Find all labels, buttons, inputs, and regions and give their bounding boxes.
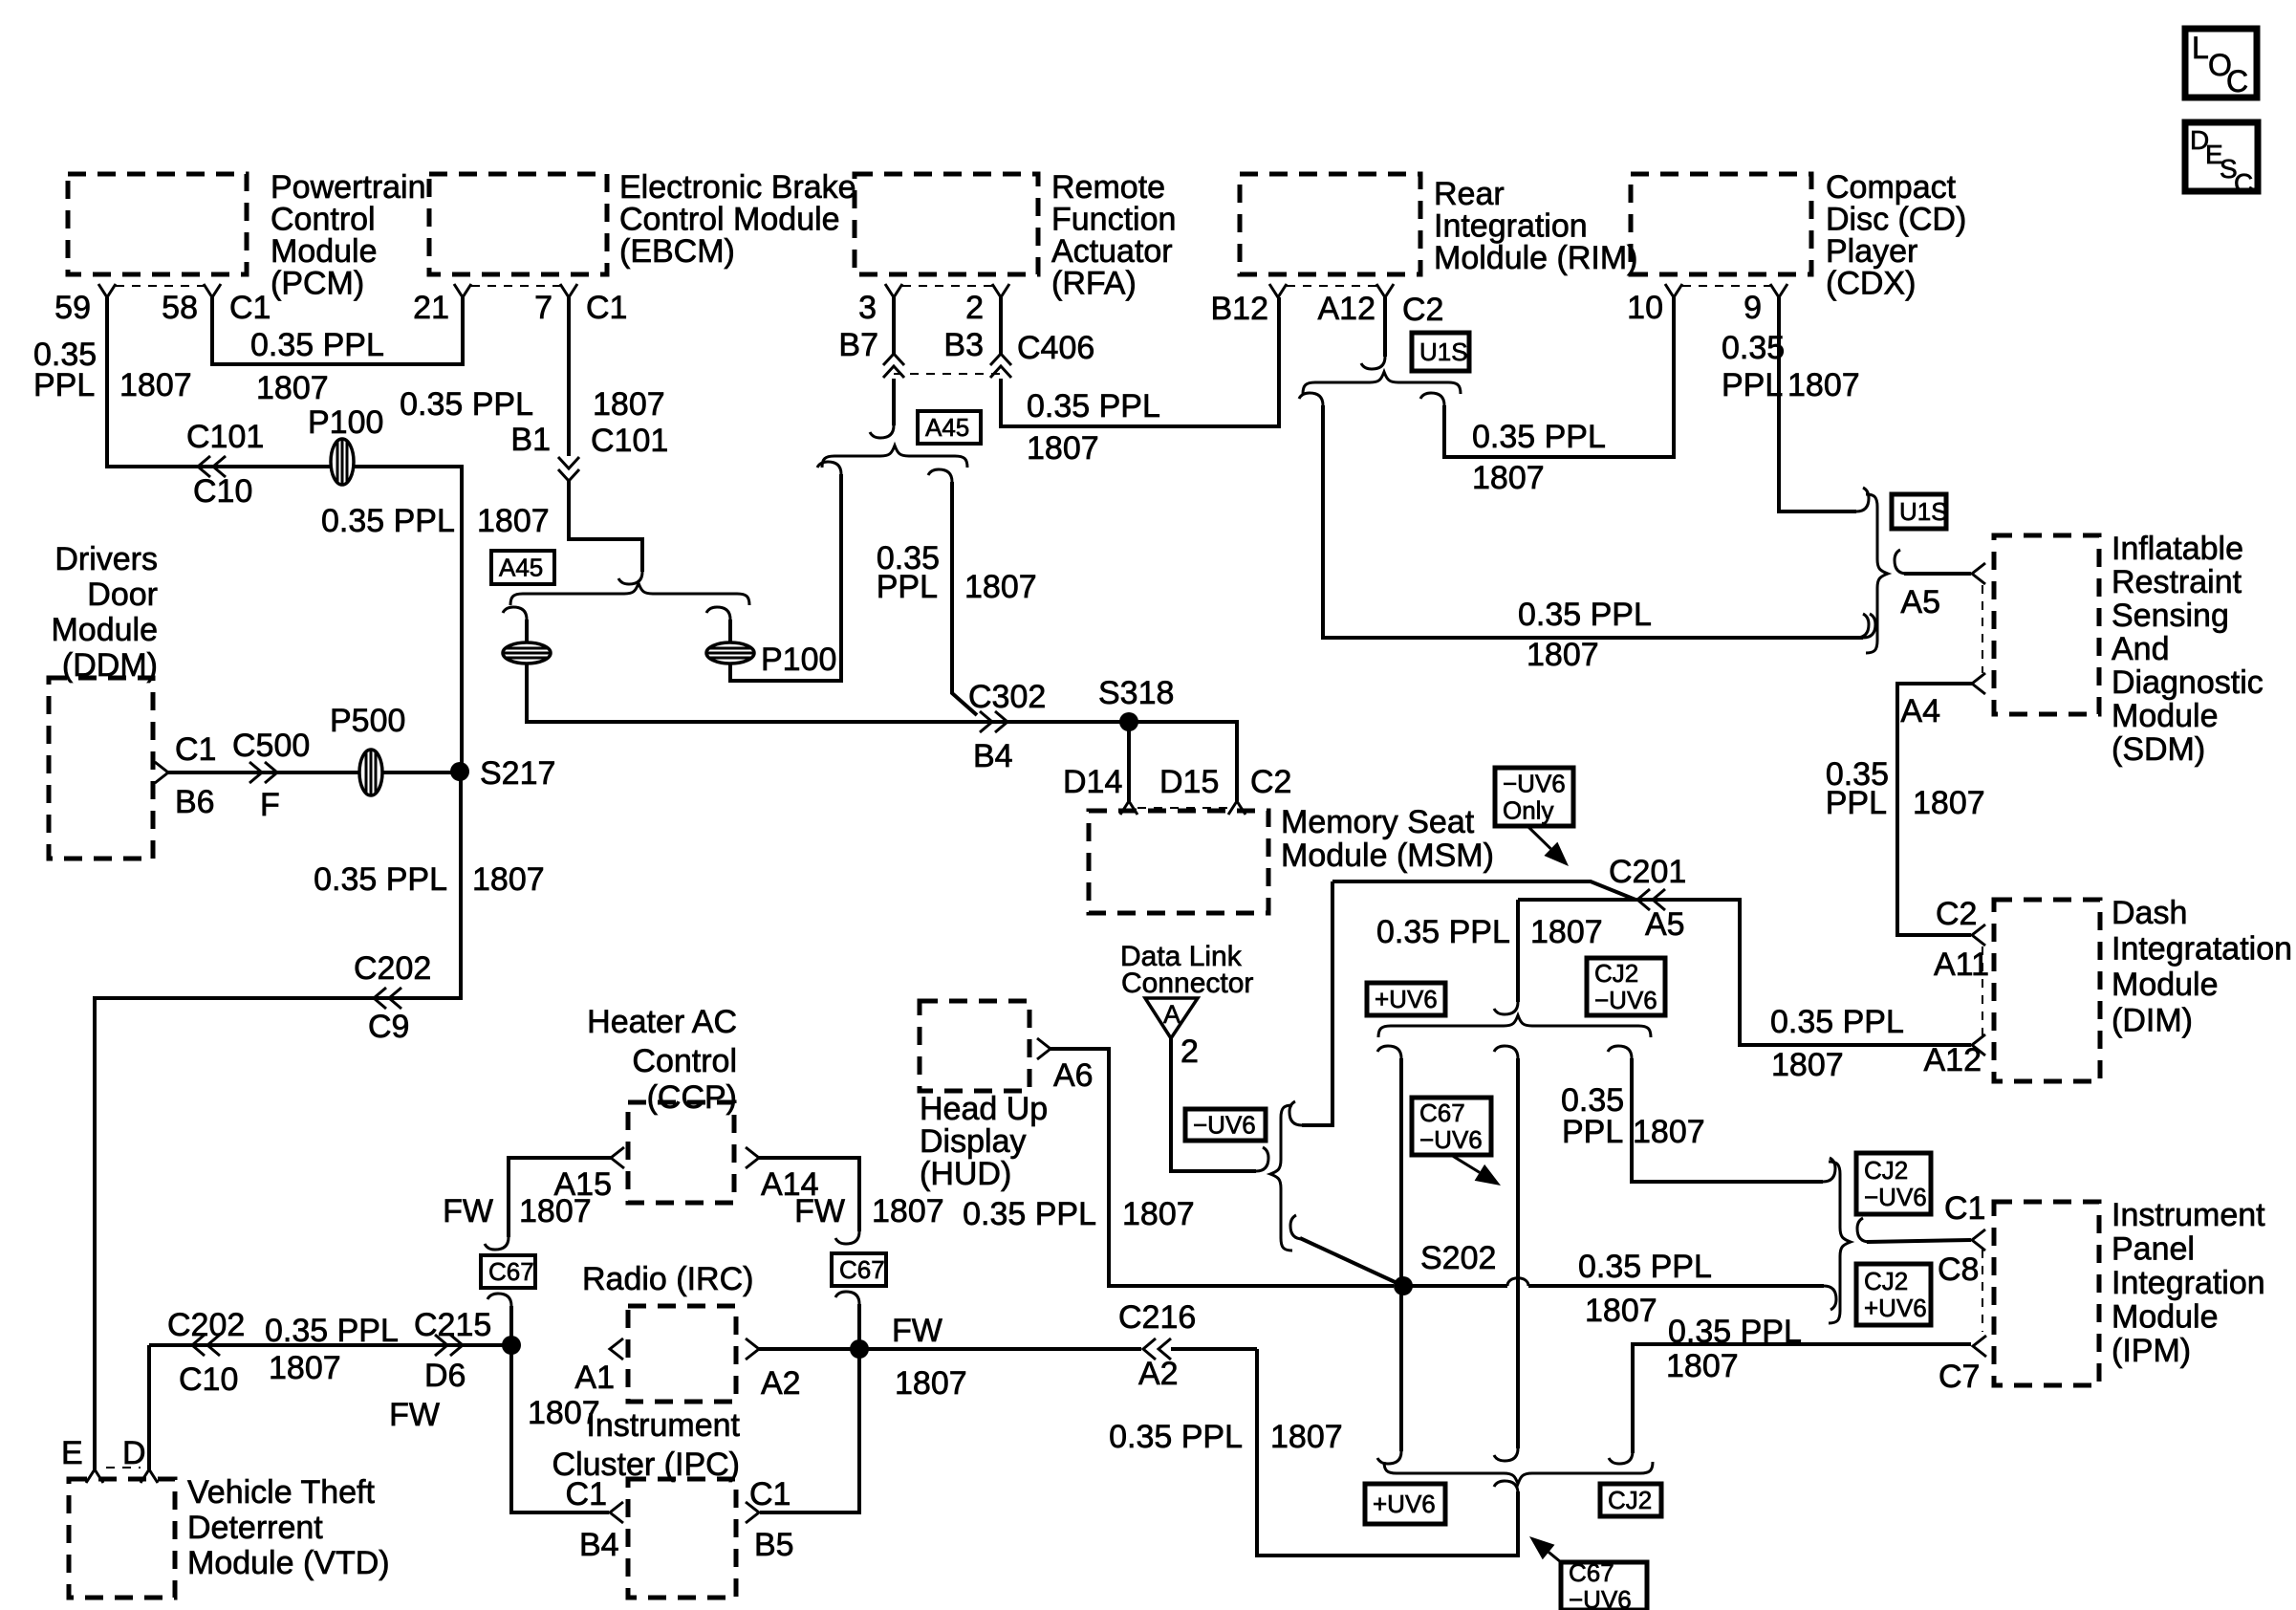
- wire S318 to MSM D15: [1129, 722, 1237, 801]
- junction dot A2: [850, 1339, 869, 1359]
- svg-text:C67: C67: [1569, 1558, 1614, 1587]
- svg-text:1807: 1807: [1270, 1419, 1343, 1455]
- svg-text:A6: A6: [1053, 1057, 1094, 1094]
- LOC reference box: [2185, 29, 2257, 98]
- wire CJ2 branch 2 middle: [1516, 1058, 1520, 1448]
- svg-text:0.35 PPL: 0.35 PPL: [1668, 1314, 1802, 1350]
- svg-text:Actuator: Actuator: [1051, 233, 1173, 270]
- svg-text:C1: C1: [229, 290, 271, 326]
- harness brace A45 left: [510, 583, 749, 605]
- harness brace A45 right: [822, 446, 967, 468]
- wire RIM A12/C2 down: [1383, 297, 1387, 357]
- module SDM box: [1994, 535, 2099, 714]
- svg-text:A11: A11: [1934, 946, 1989, 983]
- boxed label U1S (SDM): [1892, 494, 1946, 529]
- module CCP box: [628, 1102, 734, 1203]
- svg-text:21: 21: [413, 290, 449, 326]
- pin CCP A14: [746, 1147, 759, 1168]
- wire junction down to IPC B5: [760, 1349, 859, 1512]
- svg-text:C67: C67: [839, 1255, 885, 1284]
- svg-text:0.35 PPL: 0.35 PPL: [1472, 419, 1606, 455]
- hook U1S-RIM left branch: [1299, 393, 1323, 405]
- svg-text:Compact: Compact: [1826, 169, 1957, 206]
- svg-text:0.35 PPL: 0.35 PPL: [963, 1196, 1096, 1232]
- CDX connector face dashed line: [1682, 285, 1770, 287]
- module CDX box: [1631, 174, 1811, 274]
- pin CDX 10: [1665, 284, 1682, 297]
- boxed label +UV6 (bottom): [1365, 1484, 1445, 1524]
- wire RFA-2 to RIM B12: [1001, 297, 1279, 426]
- hook brace to S202 branch: [1290, 1215, 1303, 1239]
- wire S202 to hop: [1403, 1284, 1507, 1288]
- svg-text:0.35 PPL: 0.35 PPL: [400, 386, 533, 423]
- hook CJ2 branch 3: [1608, 1046, 1632, 1058]
- svg-text:Powertrain: Powertrain: [271, 169, 426, 206]
- svg-text:Module: Module: [271, 233, 378, 270]
- svg-text:CJ2: CJ2: [1864, 1156, 1908, 1185]
- connector C101 chevrons on B1 wire: [558, 457, 579, 481]
- svg-text:B12: B12: [1211, 291, 1269, 327]
- pin RFA 2: [992, 284, 1009, 297]
- svg-text:−UV6: −UV6: [1864, 1183, 1927, 1211]
- pin IPM C7: [1973, 1336, 1986, 1357]
- wire CCP A14 to C67 right: [759, 1158, 859, 1231]
- hook bundle bottom 2: [1494, 1448, 1518, 1461]
- wire U1S-RIM right branch to CDX-10: [1444, 297, 1674, 457]
- svg-text:U1S: U1S: [1419, 337, 1468, 366]
- svg-text:C: C: [2226, 64, 2248, 98]
- svg-text:(EBCM): (EBCM): [619, 233, 735, 270]
- svg-text:1807: 1807: [477, 503, 550, 539]
- wire S202 below to bundle: [1399, 1286, 1403, 1451]
- MSM connector face dashed line: [1137, 807, 1228, 809]
- grommet P100 disk right: [706, 642, 754, 664]
- module DDM box: [49, 678, 153, 859]
- module PCM box: [68, 174, 247, 274]
- wire A45 left branch upper stem: [525, 620, 529, 642]
- svg-text:L: L: [2192, 31, 2209, 65]
- svg-text:FW: FW: [443, 1193, 493, 1229]
- svg-text:C406: C406: [1017, 330, 1094, 366]
- svg-text:(CDX): (CDX): [1826, 266, 1916, 302]
- svg-text:B6: B6: [175, 784, 215, 820]
- pin HUD A6: [1037, 1038, 1051, 1059]
- VTD connector face dashed line: [106, 1467, 141, 1469]
- svg-text:0.35 PPL: 0.35 PPL: [1518, 597, 1652, 633]
- svg-text:Diagnostic: Diagnostic: [2112, 664, 2264, 701]
- boxed label +UV6 (upper): [1367, 983, 1445, 1015]
- pin SDM A4: [1972, 673, 1985, 694]
- boxed label -UV6 Only: [1495, 768, 1573, 826]
- svg-text:0.35 PPL: 0.35 PPL: [1376, 914, 1510, 950]
- boxed label CJ2 -UV6 (IPM): [1856, 1153, 1931, 1214]
- svg-text:C216: C216: [1118, 1299, 1196, 1336]
- hook A45 left branch: [503, 607, 527, 620]
- wire C216 to corner: [1171, 1347, 1257, 1351]
- svg-text:0.35 PPL: 0.35 PPL: [250, 327, 384, 363]
- pin DIM C2: [1972, 925, 1985, 946]
- svg-text:(RFA): (RFA): [1051, 266, 1137, 302]
- hook U1S-RIM right branch: [1420, 393, 1444, 405]
- svg-text:S318: S318: [1098, 675, 1174, 711]
- connector C406 chevrons on B3 wire: [990, 354, 1011, 378]
- svg-text:1807: 1807: [1913, 785, 1985, 821]
- pin RFA 3: [885, 284, 902, 297]
- grommet P100 disk left: [503, 642, 551, 664]
- svg-text:1807: 1807: [119, 367, 192, 403]
- wire MSM branch vertical: [1302, 881, 1332, 1125]
- hook RIM A12 wire end: [1361, 357, 1385, 369]
- data link connector triangle: [1145, 998, 1198, 1038]
- svg-text:Instrument: Instrument: [2112, 1197, 2265, 1233]
- svg-text:0.35 PPL: 0.35 PPL: [314, 861, 447, 898]
- pin VTD D: [141, 1469, 158, 1483]
- wire CJ2 branch 3 to IPM C1 run: [1632, 1058, 1823, 1182]
- wire C67 to junction: [509, 1306, 513, 1345]
- pin CCP A15: [611, 1147, 624, 1168]
- svg-text:A5: A5: [1900, 584, 1940, 620]
- module RIM box: [1240, 174, 1420, 274]
- hook C67 left bottom: [487, 1294, 511, 1306]
- svg-text:Function: Function: [1051, 202, 1176, 238]
- svg-text:2: 2: [1180, 1033, 1199, 1070]
- wire Radio A2 to junction: [759, 1347, 859, 1351]
- wire B1 below C101 to A45 hook: [569, 481, 642, 572]
- wire bundle to C216 run: [1257, 1349, 1518, 1556]
- wire S318 to MSM D14: [1127, 722, 1131, 801]
- svg-text:(CCP): (CCP): [647, 1079, 737, 1116]
- hook CJ2 branch 1: [1377, 1046, 1401, 1058]
- grommet P500: [359, 750, 382, 795]
- svg-text:A45: A45: [499, 554, 543, 582]
- hook CDX-9 wire end: [1856, 488, 1869, 511]
- svg-text:A5: A5: [1645, 906, 1685, 943]
- svg-text:D: D: [122, 1435, 146, 1471]
- wire DDM B6 to S217: [168, 771, 460, 774]
- svg-text:CJ2: CJ2: [1594, 959, 1638, 988]
- svg-text:F: F: [260, 787, 280, 823]
- svg-text:Dash: Dash: [2112, 895, 2187, 931]
- svg-text:0.35 PPL: 0.35 PPL: [1578, 1249, 1712, 1285]
- svg-text:C215: C215: [414, 1307, 491, 1343]
- wire EBCM-7 B1 down to A45: [567, 297, 571, 456]
- svg-text:−UV6: −UV6: [1569, 1585, 1632, 1610]
- hook IPM C1 wire start: [1857, 1218, 1870, 1242]
- svg-text:1807: 1807: [872, 1193, 944, 1229]
- svg-text:Inflatable: Inflatable: [2112, 531, 2243, 567]
- grommet P100 (left): [331, 439, 354, 485]
- svg-text:B7: B7: [838, 327, 878, 363]
- svg-text:C10: C10: [193, 473, 252, 510]
- dashed circuit IPM C1-C7: [1982, 1250, 1983, 1332]
- svg-text:Module: Module: [2112, 698, 2219, 734]
- hook A45-2 left branch: [817, 462, 841, 474]
- svg-text:A1: A1: [574, 1360, 615, 1396]
- svg-text:(PCM): (PCM): [271, 266, 364, 302]
- hook U1S long run right end: [1863, 614, 1875, 638]
- svg-text:−UV6: −UV6: [1419, 1125, 1483, 1154]
- harness brace U1S SDM: [1866, 494, 1888, 653]
- dashed circuit SDM A5-A4: [1982, 585, 1983, 673]
- wire CJ2 branch 1 (to S202): [1399, 1058, 1403, 1286]
- svg-text:0.35: 0.35: [1722, 330, 1785, 366]
- svg-text:A2: A2: [1138, 1356, 1179, 1392]
- svg-text:Player: Player: [1826, 233, 1917, 270]
- pin MSM D14: [1120, 801, 1137, 815]
- svg-text:PPL: PPL: [1826, 785, 1887, 821]
- wire junction down to IPC B4: [511, 1345, 609, 1512]
- boxed label U1S (RIM): [1412, 333, 1469, 371]
- pin VTD E: [86, 1469, 103, 1483]
- RFA connector face dashed line: [902, 285, 992, 287]
- svg-text:Module: Module: [51, 612, 158, 648]
- svg-text:1807: 1807: [1527, 637, 1599, 673]
- hook MSM branch end: [1289, 1101, 1302, 1125]
- wire A45 right branch lower: [730, 474, 841, 681]
- svg-text:Drivers: Drivers: [54, 541, 158, 577]
- module IPM box: [1994, 1202, 2099, 1385]
- harness brace bottom: [1384, 1462, 1653, 1484]
- svg-text:C202: C202: [354, 950, 431, 987]
- svg-text:P500: P500: [330, 703, 405, 739]
- svg-text:7: 7: [534, 290, 552, 326]
- svg-text:Heater AC: Heater AC: [587, 1004, 737, 1040]
- wire A45 right branch upper stem: [728, 620, 732, 642]
- wire S217 down to C202: [95, 772, 461, 1469]
- svg-text:C101: C101: [591, 423, 668, 459]
- EBCM connector face dashed line: [471, 285, 560, 287]
- wire IPM C7 run: [1633, 1344, 1971, 1453]
- module EBCM box: [429, 174, 607, 274]
- pin CDX 9: [1770, 284, 1787, 297]
- hook SDM A5 wire start: [1895, 550, 1907, 574]
- hook C67 right bottom: [835, 1292, 859, 1304]
- svg-text:C1: C1: [586, 290, 627, 326]
- svg-text:1807: 1807: [1472, 460, 1545, 496]
- svg-text:Only: Only: [1503, 796, 1553, 825]
- svg-text:Vehicle Theft: Vehicle Theft: [187, 1474, 376, 1511]
- wire MSM-A5 to C201: [1332, 881, 1635, 900]
- connector C406 dashed line: [894, 373, 1001, 375]
- svg-text:CJ2: CJ2: [1608, 1486, 1652, 1514]
- svg-text:1807: 1807: [593, 386, 665, 423]
- hook C67 right top: [835, 1231, 859, 1244]
- wire PCM-59 to C101/P100 to S217 vertical: [107, 297, 462, 772]
- svg-text:PPL: PPL: [33, 367, 95, 403]
- boxed label A45 (left): [491, 551, 554, 584]
- svg-text:9: 9: [1744, 290, 1762, 326]
- svg-text:C8: C8: [1938, 1251, 1979, 1288]
- leader arrow -UV6 Only: [1527, 826, 1550, 849]
- svg-text:E: E: [61, 1435, 83, 1471]
- wire to SDM A5: [1904, 572, 1971, 576]
- hook B7 wire end: [870, 425, 894, 438]
- svg-text:D6: D6: [424, 1358, 466, 1394]
- wire RFA-2 B3 upper: [999, 297, 1003, 354]
- svg-text:0.35 PPL: 0.35 PPL: [265, 1313, 399, 1349]
- wire A45 left branch to C302 run: [527, 664, 1129, 722]
- boxed label -UV6 (DLC): [1185, 1109, 1266, 1141]
- pin Radio A2: [746, 1338, 759, 1360]
- hook below bottom brace: [1494, 1481, 1518, 1493]
- svg-text:Display: Display: [920, 1123, 1026, 1160]
- pin RIM B12: [1269, 284, 1287, 297]
- svg-text:And: And: [2112, 631, 2170, 667]
- pin PCM 59: [98, 284, 116, 297]
- wire VTD D drop: [147, 1345, 151, 1469]
- svg-text:1807: 1807: [1633, 1114, 1705, 1150]
- svg-text:P100: P100: [761, 642, 836, 678]
- svg-text:Integration: Integration: [1434, 208, 1588, 245]
- svg-text:C302: C302: [968, 679, 1046, 715]
- pin DDM B6: [155, 762, 168, 783]
- svg-text:Radio (IRC): Radio (IRC): [582, 1261, 753, 1297]
- wire C215 run: [149, 1343, 511, 1347]
- svg-text:A45: A45: [925, 413, 969, 442]
- svg-text:1807: 1807: [1530, 914, 1603, 950]
- module VTD box: [69, 1479, 175, 1598]
- svg-text:Integration: Integration: [2112, 1265, 2265, 1301]
- wire A2 junction to C216: [859, 1347, 1141, 1351]
- pin RIM A12: [1376, 284, 1394, 297]
- RIM connector face dashed line: [1287, 285, 1376, 287]
- svg-text:C101: C101: [186, 419, 264, 455]
- splice S202 junction dot: [1394, 1276, 1413, 1295]
- svg-text:Door: Door: [87, 577, 158, 613]
- connector C101 chevrons: [198, 456, 226, 477]
- svg-text:Connector: Connector: [1121, 968, 1253, 999]
- svg-text:−UV6: −UV6: [1193, 1111, 1256, 1140]
- hook A45 right branch: [706, 607, 730, 620]
- svg-text:C2: C2: [1250, 764, 1291, 800]
- svg-text:CJ2: CJ2: [1864, 1267, 1908, 1295]
- wire CCP A15 to C67: [509, 1158, 611, 1237]
- svg-text:A12: A12: [1318, 291, 1376, 327]
- svg-text:+UV6: +UV6: [1375, 985, 1438, 1013]
- svg-text:C67: C67: [1419, 1099, 1465, 1127]
- svg-text:FW: FW: [794, 1193, 845, 1229]
- hook bundle bottom 3: [1609, 1451, 1633, 1464]
- connector C500 chevrons: [249, 762, 277, 783]
- svg-text:A: A: [1163, 1000, 1180, 1029]
- svg-text:1807: 1807: [1122, 1196, 1195, 1232]
- hook C201 branch end: [1494, 1002, 1518, 1014]
- svg-text:1807: 1807: [895, 1365, 967, 1402]
- module Radio box: [628, 1306, 736, 1402]
- wire U1S-RIM left branch long run: [1323, 405, 1863, 638]
- svg-text:(HUD): (HUD): [920, 1156, 1011, 1192]
- connector C216 chevrons: [1143, 1338, 1171, 1360]
- svg-text:C202: C202: [167, 1307, 245, 1343]
- svg-text:D15: D15: [1159, 764, 1219, 800]
- harness brace CJ2 upper: [1378, 1015, 1651, 1037]
- svg-text:P100: P100: [308, 404, 383, 441]
- PCM connector face dashed line: [116, 285, 204, 287]
- svg-text:1807: 1807: [269, 1350, 341, 1386]
- svg-text:FW: FW: [389, 1397, 440, 1433]
- svg-text:1807: 1807: [1771, 1047, 1844, 1083]
- svg-text:A4: A4: [1900, 693, 1940, 729]
- svg-text:Head Up: Head Up: [920, 1091, 1048, 1127]
- pin EBCM 21: [454, 284, 471, 297]
- wire brace to S202 diagonal: [1300, 1238, 1403, 1286]
- wire to IPM C1: [1867, 1240, 1971, 1242]
- svg-text:1807: 1807: [472, 861, 545, 898]
- svg-text:0.35 PPL: 0.35 PPL: [1109, 1419, 1243, 1455]
- svg-text:−UV6: −UV6: [1503, 770, 1566, 798]
- svg-text:1807: 1807: [519, 1193, 592, 1229]
- boxed label C67 (right): [832, 1253, 886, 1286]
- svg-text:(DIM): (DIM): [2112, 1003, 2193, 1039]
- svg-text:B4: B4: [579, 1527, 619, 1563]
- svg-text:1807: 1807: [1027, 430, 1099, 467]
- boxed label CJ2 +UV6 (IPM): [1856, 1264, 1931, 1325]
- dashed circuit DIM A11-A12: [1982, 946, 1983, 1035]
- harness brace U1S RIM: [1303, 372, 1461, 394]
- boxed label A45 (right): [918, 411, 981, 444]
- svg-text:C67: C67: [488, 1257, 534, 1286]
- boxed label CJ2 -UV6 (upper): [1587, 958, 1665, 1015]
- wire hop over vertical: [1507, 1278, 1528, 1286]
- pin DIM A12: [1972, 1034, 1985, 1055]
- svg-text:2: 2: [965, 290, 984, 326]
- wire C201 branch down: [1516, 900, 1520, 1002]
- boxed label C67 -UV6 (upper): [1412, 1098, 1491, 1155]
- hook IPM C1 run end: [1823, 1158, 1835, 1182]
- svg-text:Deterrent: Deterrent: [187, 1510, 323, 1546]
- pin PCM 58: [204, 284, 221, 297]
- harness brace IPM C1: [1829, 1162, 1851, 1323]
- connector C201 chevrons: [1637, 889, 1665, 910]
- svg-text:C7: C7: [1939, 1359, 1980, 1395]
- svg-text:C500: C500: [232, 728, 310, 764]
- wire RFA-3 B7 upper: [892, 297, 896, 354]
- svg-text:59: 59: [54, 290, 91, 326]
- svg-text:FW: FW: [892, 1313, 942, 1349]
- svg-text:58: 58: [162, 290, 198, 326]
- svg-text:Integratation: Integratation: [2112, 931, 2292, 968]
- svg-text:D14: D14: [1063, 764, 1122, 800]
- module DIM box: [1994, 900, 2100, 1081]
- leader arrow C67 bottom: [1549, 1552, 1561, 1562]
- svg-text:1807: 1807: [1787, 367, 1860, 403]
- svg-text:−UV6: −UV6: [1594, 986, 1657, 1014]
- svg-text:3: 3: [858, 290, 877, 326]
- svg-text:1807: 1807: [1666, 1348, 1739, 1384]
- pin Radio A1: [610, 1338, 623, 1360]
- svg-text:Module (VTD): Module (VTD): [187, 1545, 390, 1581]
- pin IPC B4: [610, 1502, 623, 1523]
- svg-text:S202: S202: [1420, 1240, 1496, 1276]
- module MSM box: [1089, 811, 1268, 913]
- svg-text:C2: C2: [1402, 292, 1443, 328]
- svg-text:A2: A2: [761, 1365, 801, 1402]
- svg-text:Control: Control: [632, 1043, 737, 1079]
- svg-text:C: C: [2234, 168, 2253, 198]
- svg-text:Panel: Panel: [2112, 1231, 2195, 1268]
- svg-text:S217: S217: [480, 755, 555, 792]
- svg-text:C10: C10: [179, 1361, 238, 1398]
- pin SDM A5: [1972, 563, 1985, 584]
- svg-text:B5: B5: [754, 1527, 794, 1563]
- hook C67 left top: [485, 1237, 509, 1250]
- pin MSM D15: [1228, 801, 1245, 815]
- connector C202 chevrons (mid): [374, 988, 401, 1009]
- connector C202 chevrons (bottom): [192, 1335, 220, 1356]
- hook S202 run end: [1824, 1286, 1836, 1310]
- junction dot C215: [502, 1336, 521, 1355]
- hook B1 wire end: [618, 572, 642, 584]
